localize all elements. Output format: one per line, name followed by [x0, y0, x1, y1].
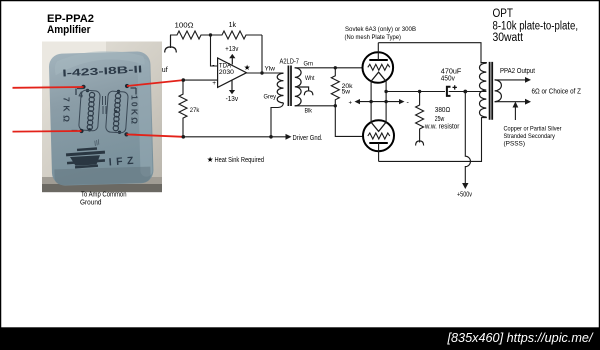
svg-text:A2LD-7: A2LD-7	[280, 59, 300, 66]
svg-text:Ylw: Ylw	[265, 65, 276, 72]
wire Grn to grid	[295, 67, 363, 69]
T1 secondary winding	[295, 68, 301, 106]
svg-text:10KΩ: 10KΩ	[130, 95, 140, 124]
svg-text:2030: 2030	[219, 69, 234, 76]
svg-text:OPT: OPT	[493, 8, 514, 20]
secondary callout arrow	[514, 106, 516, 120]
UTC logo stamp	[66, 147, 105, 168]
svg-text:★: ★	[244, 63, 251, 72]
tube V2 lower triode	[363, 120, 394, 151]
plate rail top	[378, 43, 481, 64]
svg-text:Wht: Wht	[305, 75, 315, 82]
node cathode/filament	[384, 90, 387, 93]
secondary top lead arrow	[495, 79, 526, 81]
OPT T2 primary winding	[480, 63, 487, 117]
svg-text:To Amp Common: To Amp Common	[81, 192, 127, 199]
filament right arrow	[399, 99, 405, 104]
filament supply rail	[357, 101, 401, 103]
svg-text:+: +	[349, 100, 353, 106]
svg-text:+13v: +13v	[225, 46, 238, 53]
T1 primary winding	[277, 73, 283, 103]
filament leg right	[385, 81, 387, 123]
svg-text:Heat Sink Required: Heat Sink Required	[215, 157, 265, 164]
filament left arrow	[355, 99, 361, 104]
label right coil symbol	[113, 93, 121, 131]
node 20k top	[334, 66, 337, 69]
node 27k/ground	[182, 135, 186, 139]
node output/feedback	[260, 71, 263, 74]
svg-text:Sovtek 6A3 (only) or 300B: Sovtek 6A3 (only) or 300B	[345, 26, 416, 33]
node grey/ground	[269, 135, 273, 139]
ground pigtail 380ohm	[416, 141, 424, 146]
photo of interstage transformer I-423-18B-II	[42, 42, 162, 193]
node junction 100ohm/1k	[209, 33, 212, 36]
wire bottom rail to primary	[482, 116, 487, 119]
node filament left	[369, 100, 372, 103]
op-amp U1 TDA2030	[218, 58, 247, 87]
svg-text:25w: 25w	[435, 116, 445, 123]
resistor R 20k 5w	[331, 68, 339, 106]
red lead wire left top	[13, 86, 84, 89]
T1 core	[288, 66, 291, 107]
V2 plate	[369, 142, 388, 144]
svg-text:-13v: -13v	[226, 96, 239, 103]
terminal marks 1-4	[76, 89, 83, 96]
power +13v arrow	[231, 57, 233, 65]
wire top rail to primary	[481, 62, 486, 65]
wire noninverting input	[183, 79, 217, 81]
node input	[182, 78, 186, 82]
V2 grid	[368, 133, 390, 139]
watermark bar	[0, 327, 600, 350]
wire feedback down to output	[261, 35, 263, 73]
red lead wire to op-amp input	[127, 80, 183, 86]
T1 primary bottom lead to ground	[271, 103, 284, 137]
plate rail bottom	[379, 117, 482, 161]
svg-text:[835x460] https://upic.me/: [835x460] https://upic.me/	[447, 330, 594, 345]
driver ground bus wire	[183, 136, 286, 138]
node B+ center tap	[463, 90, 467, 94]
svg-text:100Ω: 100Ω	[175, 22, 194, 29]
label left coil symbol	[87, 92, 95, 130]
V1 plate	[369, 59, 388, 61]
10K ohm marking	[130, 95, 140, 124]
core dashes on label	[103, 96, 107, 114]
svg-text:8-10k plate-to-plate,: 8-10k plate-to-plate,	[493, 21, 579, 33]
svg-text:Copper or Partial Silver: Copper or Partial Silver	[504, 126, 563, 133]
wire inverting input	[211, 35, 218, 66]
node 380ohm top	[418, 90, 421, 93]
svg-text:PPA2 Output: PPA2 Output	[500, 68, 535, 75]
node filament right	[384, 100, 387, 103]
tube V1 upper triode	[363, 52, 394, 83]
resistor R 27k	[179, 80, 187, 137]
filament leg left	[370, 81, 372, 123]
7K ohm marking	[62, 97, 72, 122]
V1 grid	[368, 64, 390, 70]
OPT T2 secondary winding	[495, 80, 502, 102]
wire Blk to lower grid	[335, 106, 363, 137]
svg-text:Blk: Blk	[305, 108, 313, 115]
svg-text:+500v: +500v	[457, 192, 472, 199]
svg-text:1k: 1k	[229, 22, 237, 29]
node 20k bottom	[334, 104, 337, 107]
svg-text:30watt: 30watt	[493, 32, 524, 44]
wire center tap	[465, 91, 486, 93]
input pigtail curl	[165, 35, 177, 52]
V2 plate lead	[378, 143, 380, 161]
svg-text:Stranded Secondary: Stranded Secondary	[504, 133, 556, 140]
power -13v arrow	[231, 80, 233, 91]
svg-text:Driver Gnd.: Driver Gnd.	[293, 135, 323, 142]
svg-text:5w: 5w	[342, 88, 351, 95]
secondary bottom lead arrow	[495, 101, 526, 103]
wire Blk	[295, 105, 336, 107]
T1 center tap pigtail	[299, 87, 313, 95]
svg-text:27k: 27k	[190, 107, 200, 114]
svg-text:Grey: Grey	[264, 94, 277, 101]
red lead wire left bottom	[13, 130, 82, 133]
svg-text:★: ★	[207, 155, 214, 164]
V1 filament	[371, 72, 386, 81]
wire op-amp output to transformer	[247, 72, 284, 74]
svg-text:Grn: Grn	[304, 61, 314, 68]
svg-text:7KΩ: 7KΩ	[62, 97, 72, 122]
B+ 500v feed with hop	[465, 92, 470, 185]
resistor R 380ohm 25w	[416, 92, 424, 143]
svg-text:+: +	[212, 80, 216, 87]
wire cap to center tap	[449, 91, 487, 93]
red lead wire to driver ground	[127, 134, 184, 136]
svg-text:470uF: 470uF	[441, 69, 462, 76]
svg-text:IFZ: IFZ	[108, 154, 138, 168]
svg-text:uf: uf	[162, 67, 168, 74]
svg-text:450v: 450v	[441, 76, 455, 83]
driver ground arrow	[286, 134, 292, 140]
svg-text:380Ω: 380Ω	[435, 107, 451, 114]
V1 plate lead	[377, 43, 379, 60]
V2 filament	[371, 122, 386, 131]
label winding boxes	[79, 90, 101, 131]
svg-text:(PSSS): (PSSS)	[504, 141, 526, 148]
terminal dots for red leads	[81, 85, 85, 89]
svg-text:w.w. resistor: w.w. resistor	[424, 124, 460, 131]
svg-text:Amplifier: Amplifier	[47, 24, 91, 36]
svg-text:(No mesh Plate Type): (No mesh Plate Type)	[345, 34, 402, 41]
svg-text:6Ω or Choice of Z: 6Ω or Choice of Z	[532, 89, 582, 96]
cathode return wire	[386, 91, 445, 93]
svg-text:Ground: Ground	[80, 200, 102, 207]
OPT core	[490, 62, 493, 120]
